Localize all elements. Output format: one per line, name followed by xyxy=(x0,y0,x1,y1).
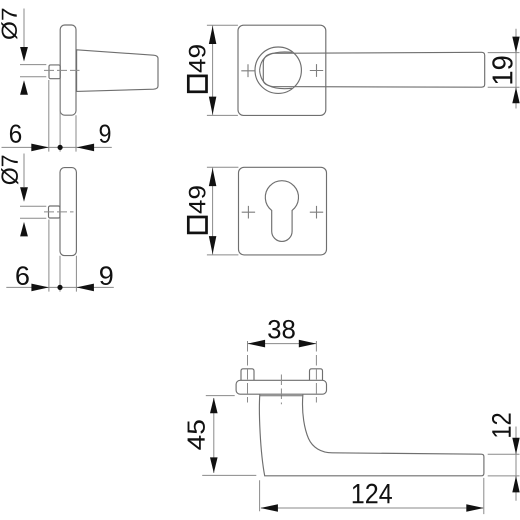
centerline xyxy=(44,211,74,213)
lever bar with rounded left end xyxy=(263,52,484,87)
dim 124 line xyxy=(261,507,483,509)
grip butt silhouette upper curve xyxy=(260,52,292,70)
dim 124 extension lines xyxy=(260,478,484,514)
centerline xyxy=(44,69,80,71)
dim 6/9 extension lines xyxy=(49,220,77,292)
dim 45 arrows xyxy=(210,398,218,414)
spindle stub xyxy=(49,65,60,79)
screw mark left xyxy=(242,206,255,219)
dim 6/9 line xyxy=(6,286,114,288)
node dot xyxy=(57,285,62,290)
dim Ø7 extension lines xyxy=(20,206,46,218)
dim 6 arrow xyxy=(31,284,49,292)
dim 9 arrow xyxy=(76,284,94,292)
dim 19 line xyxy=(515,29,517,109)
plate centerline xyxy=(280,375,282,405)
dim square49 label xyxy=(189,186,206,213)
square rose xyxy=(238,25,326,115)
dim 12 extension lines xyxy=(488,454,520,476)
dim 124 label xyxy=(353,484,392,504)
screw centerline left xyxy=(247,341,249,403)
dim square49 arrows xyxy=(209,26,217,44)
dim 12 label xyxy=(492,413,511,436)
dim 19 label xyxy=(492,56,512,83)
dim 12 arrows xyxy=(512,438,519,455)
screw mark left xyxy=(241,64,254,77)
dim 6 label xyxy=(10,124,21,142)
dim Ø7 arrow upper xyxy=(20,187,28,202)
dim square49 arrows xyxy=(209,168,217,186)
square rose xyxy=(239,167,327,255)
dim 124 arrows xyxy=(260,504,278,512)
dim 45 extension lines xyxy=(202,396,256,476)
dim 6/9 line xyxy=(2,146,112,148)
dim 45 label xyxy=(188,420,205,449)
neck and lever outline (plan) xyxy=(259,395,483,476)
screw left xyxy=(241,369,254,381)
dim Ø7 arrow upper xyxy=(20,47,28,62)
grip butt silhouette lower curve xyxy=(260,70,292,88)
rose plate (side) xyxy=(60,25,76,115)
dim Ø7 arrow lower xyxy=(20,80,28,95)
dim Ø7 leader line xyxy=(23,9,25,48)
dim Ø7 arrow lower xyxy=(20,222,28,237)
dim 6 label xyxy=(16,266,28,285)
dim Ø7 label xyxy=(1,9,17,40)
dim square49 extension lines xyxy=(207,25,238,115)
screw centerline right xyxy=(315,341,317,403)
spindle stub xyxy=(49,206,60,218)
screw mark right xyxy=(310,206,323,219)
dim Ø7 extension lines xyxy=(20,65,46,77)
dim 38 line xyxy=(248,343,317,345)
dim square49 label xyxy=(189,45,206,72)
dim 9 label xyxy=(100,266,112,285)
dim 19 arrows xyxy=(512,37,519,53)
grip cone xyxy=(77,50,158,92)
dim square49 extension lines xyxy=(207,167,239,255)
euro profile keyhole xyxy=(265,181,298,242)
dim 6 arrow xyxy=(31,144,49,152)
dim square49 line xyxy=(212,25,214,115)
dim 19 extension lines xyxy=(488,53,520,88)
neck-plate junction line xyxy=(260,395,303,397)
dim 9 arrow xyxy=(77,144,95,152)
dim 38 label xyxy=(268,320,295,339)
dim 38 arrows xyxy=(248,340,266,348)
dim 9 label xyxy=(100,124,111,142)
collar circle xyxy=(255,47,301,93)
node dot xyxy=(58,145,63,150)
dim Ø7 leader line xyxy=(23,154,25,188)
screw right xyxy=(310,369,323,381)
dim 6/9 extension lines xyxy=(49,79,76,152)
dim square49 line xyxy=(212,167,214,254)
dim Ø7 label xyxy=(1,156,18,185)
rose plate (plan) xyxy=(236,380,326,394)
dim 12 line xyxy=(515,427,517,501)
dim 45 line xyxy=(213,398,215,473)
screw mark right xyxy=(310,64,323,77)
rose plate (side) xyxy=(60,168,76,256)
